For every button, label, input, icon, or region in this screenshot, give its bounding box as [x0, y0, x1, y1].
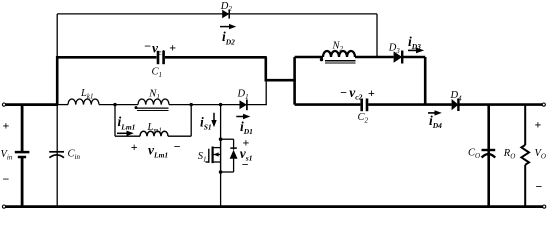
- svg-text:−: −: [242, 158, 249, 172]
- svg-text:−: −: [174, 140, 181, 154]
- svg-text:+: +: [169, 41, 176, 55]
- svg-text:−: −: [3, 172, 10, 186]
- svg-text:−: −: [144, 39, 151, 53]
- svg-text:+: +: [3, 119, 10, 133]
- svg-text:−: −: [340, 86, 347, 100]
- svg-text:+: +: [131, 140, 138, 154]
- svg-text:+: +: [535, 118, 542, 132]
- svg-text:+: +: [368, 86, 375, 100]
- svg-text:−: −: [536, 180, 543, 194]
